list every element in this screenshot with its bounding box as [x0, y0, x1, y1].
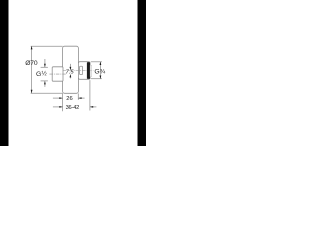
letterbox bar left [0, 0, 9, 146]
dimension 7.5: lower arrow shaft [69, 75, 71, 79]
dimension 36-42: left arrowhead (points right) [59, 106, 62, 108]
dimension 7.5: lower arrowhead (points up to inlet axis) [70, 74, 72, 77]
dimension Ø70: bottom extension line [31, 92, 63, 94]
dimension 7.5: upper arrow shaft [69, 64, 71, 70]
dimension G1/2: upper arrow shaft [44, 59, 46, 67]
svg-text:G½: G½ [36, 71, 47, 78]
dimension 26: left arrow tail [53, 97, 63, 99]
dimension G3/4: top tick [91, 61, 102, 63]
G3/4 outlet block (right) [78, 62, 90, 80]
svg-text:26: 26 [66, 96, 72, 102]
dimension G3/4: dimension line [99, 62, 101, 79]
dimension 26: right arrowhead (points left) [78, 97, 81, 99]
svg-text:36-42: 36-42 [66, 105, 80, 111]
svg-text:Ø70: Ø70 [25, 60, 38, 67]
dimension 36-42: right extension line [89, 80, 91, 110]
G1/2 inlet stub (left) [52, 67, 63, 81]
dimension 7.5: upper arrowhead (points down to outlet axis) [70, 67, 72, 70]
dimension G1/2: top tick [41, 66, 48, 68]
svg-text:G¾: G¾ [94, 68, 105, 75]
dimension G3/4: lower arrowhead [100, 76, 102, 79]
thread tip protrusion [90, 65, 91, 76]
dimension 36-42: right arrow tail [90, 106, 96, 108]
letterbox bar right [138, 0, 147, 146]
dimension Ø70: upper arrowhead [31, 46, 33, 49]
svg-text:7.5: 7.5 [66, 70, 75, 76]
wall flange disc Ø70 (side view) [63, 46, 79, 93]
dimension G1/2: bottom tick [41, 80, 48, 82]
dimension Ø70: lower arrowhead [31, 90, 33, 93]
dimension G1/2: lower arrowhead (points up) [44, 81, 46, 84]
dimension 36-42: right arrowhead (points left) [90, 106, 93, 108]
union nut dark band [87, 62, 90, 79]
dimension 26: right extension line [77, 93, 79, 100]
dimension G3/4: bottom tick [91, 78, 102, 80]
dimension Ø70: top extension line [31, 45, 63, 47]
dimension G1/2: lower arrow shaft [44, 81, 46, 87]
dimension G1/2: upper arrowhead (points down) [44, 64, 46, 67]
dimension 26 / 36-42: shared left extension line [62, 93, 64, 111]
inlet centerline (axis y=74.1) [49, 73, 66, 75]
dimension G3/4: upper arrowhead [100, 62, 102, 65]
dimension 36-42: left arrow tail [53, 106, 63, 108]
dimension 26: right arrow tail [79, 97, 85, 99]
dimension 26: left arrowhead (points right) [59, 97, 62, 99]
outlet block inner step [80, 66, 83, 74]
outlet centerline (axis y=70.5) [63, 70, 94, 72]
dimension Ø70: vertical dimension line [31, 46, 33, 93]
